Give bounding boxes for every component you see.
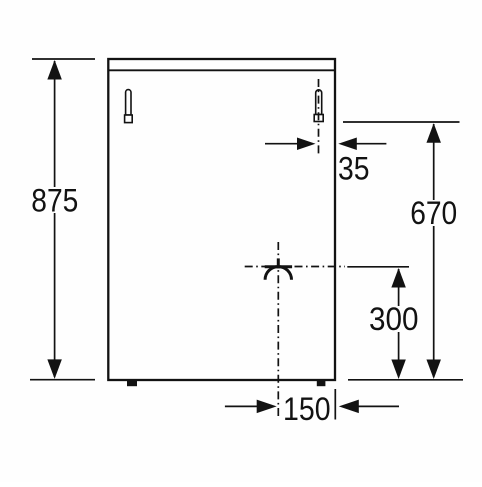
svg-text:300: 300 bbox=[369, 301, 419, 337]
svg-text:150: 150 bbox=[283, 391, 331, 427]
svg-text:670: 670 bbox=[410, 195, 457, 231]
svg-text:35: 35 bbox=[338, 150, 370, 186]
svg-text:875: 875 bbox=[31, 182, 78, 218]
